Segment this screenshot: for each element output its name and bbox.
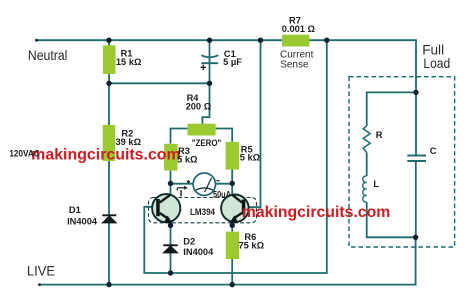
wire R1/R2/D1 column — [108, 40, 110, 284]
node Q2 emitter — [230, 223, 235, 228]
label C1 plus — [201, 65, 206, 70]
wire pot right to R5 — [216, 129, 233, 142]
svg-text:D1: D1 — [69, 205, 81, 215]
wire meter leads — [171, 183, 233, 185]
wire load C top lead — [415, 92, 417, 155]
node load top — [413, 90, 418, 95]
svg-text:Sense: Sense — [280, 60, 309, 71]
resistor R1 — [103, 45, 116, 74]
wire node bus y83 — [109, 82, 210, 84]
wire Q1 base sense return — [144, 40, 326, 273]
resistor R2 — [103, 125, 116, 161]
node meter left — [168, 181, 173, 186]
svg-text:5 kΩ: 5 kΩ — [177, 154, 198, 164]
wire C1 column — [209, 40, 211, 83]
resistor R5 — [226, 142, 239, 170]
svg-text:LM394: LM394 — [190, 207, 216, 217]
svg-text:LIVE: LIVE — [27, 264, 55, 279]
svg-text:"ZERO": "ZERO" — [192, 138, 222, 148]
wire live bus — [39, 237, 416, 284]
wire load top branch — [367, 92, 416, 126]
svg-text:C: C — [430, 146, 437, 156]
resistor R7 — [282, 35, 309, 47]
wire Q2 base to R7-left column — [246, 40, 261, 207]
wire load R-L link — [366, 153, 368, 177]
load resistor R zigzag — [363, 126, 370, 153]
svg-text:15 kΩ: 15 kΩ — [116, 57, 142, 67]
svg-text:39 kΩ: 39 kΩ — [116, 137, 142, 147]
wire Q2 emitter to R6 — [231, 222, 233, 232]
full load dashed box — [349, 77, 455, 247]
node C1 top — [207, 38, 212, 43]
wire neutral bus — [36, 40, 416, 92]
svg-text:Load: Load — [423, 56, 450, 71]
svg-text:L: L — [373, 179, 379, 189]
label meter plus — [187, 180, 190, 183]
svg-text:200 Ω: 200 Ω — [186, 102, 212, 112]
node live R2 — [106, 282, 111, 287]
wire meter-right node to Q2 collector — [231, 183, 233, 195]
svg-text:5 µF: 5 µF — [223, 57, 242, 67]
load inductor L coil — [363, 176, 367, 202]
load capacitor C — [407, 156, 426, 162]
svg-text:D2: D2 — [183, 236, 195, 246]
svg-text:IN4004: IN4004 — [183, 247, 214, 257]
current direction arrow I — [177, 186, 188, 191]
wire meter-left node to Q1 collector — [170, 183, 172, 195]
node bus83 right — [207, 81, 212, 86]
svg-text:120VAC: 120VAC — [9, 149, 39, 159]
node R1 top — [106, 38, 111, 43]
node D2 anode — [168, 270, 173, 275]
node load bottom — [413, 235, 418, 240]
svg-text:makingcircuits.com: makingcircuits.com — [31, 147, 181, 164]
svg-text:IN4004: IN4004 — [67, 216, 98, 226]
node Q1 emitter — [168, 223, 173, 228]
wire R3 to meter-left node — [170, 171, 172, 184]
diode D2 — [163, 245, 177, 253]
wire Q1 emitter to D2 — [170, 222, 172, 245]
transistor Q2 — [221, 195, 249, 223]
label I — [180, 190, 182, 196]
LM394 package dashed box — [149, 198, 257, 223]
node live R6 — [230, 282, 235, 287]
svg-text:makingcircuits.com: makingcircuits.com — [242, 204, 390, 221]
node R7 right — [324, 38, 329, 43]
terminal live — [38, 283, 41, 286]
transistor Q1 — [152, 194, 180, 223]
resistor R3 — [164, 144, 177, 171]
node R7 left — [258, 38, 263, 43]
svg-text:Neutral: Neutral — [28, 48, 68, 63]
label meter minus — [216, 180, 219, 182]
svg-text:5 kΩ: 5 kΩ — [240, 152, 261, 162]
capacitor C1 — [201, 55, 218, 63]
wire pot left to R3 — [171, 129, 188, 144]
potentiometer R4 body — [188, 124, 216, 136]
terminal neutral — [35, 39, 38, 42]
wire load L to bottom — [367, 202, 416, 237]
node meter right — [230, 181, 235, 186]
svg-text:R: R — [376, 130, 383, 140]
svg-text:75 kΩ: 75 kΩ — [239, 241, 265, 251]
wire R6 to live — [231, 259, 233, 285]
wire D2 to sense return — [170, 253, 172, 273]
meter M1 50uA — [193, 173, 215, 195]
wire load C bottom lead — [415, 162, 417, 238]
svg-text:0.001 Ω: 0.001 Ω — [282, 24, 316, 34]
wire pot wiper feed — [202, 83, 209, 123]
wire R5 to meter-right node — [231, 170, 233, 184]
resistor R6 — [226, 232, 239, 259]
diode D1 — [102, 215, 116, 223]
node bus83 left — [106, 81, 111, 86]
